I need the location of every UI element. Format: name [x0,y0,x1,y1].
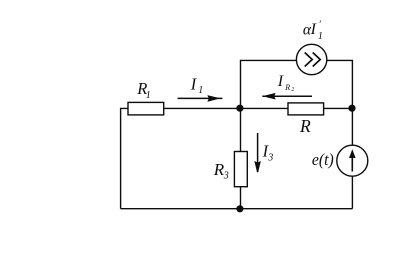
svg-text:R: R [284,83,290,92]
controlled current source U1 [296,44,326,74]
svg-text:R: R [299,116,311,136]
svg-text:I: I [277,73,284,90]
label R3 [213,160,229,181]
svg-text:I: I [310,21,317,38]
wire: R1 left lead, left side vertical [121,108,128,208]
svg-text:2: 2 [291,87,294,93]
current arrow IR2 [262,94,312,99]
wire: bottom horizontal [121,208,353,210]
resistor R1 [128,102,164,115]
svg-text:e(t): e(t) [312,150,334,169]
resistor R [288,103,324,115]
label I1 [190,74,204,96]
wire: R3 to bottom node C [240,187,242,209]
node A (main junction) [236,105,243,112]
current arrow I3 [255,133,260,172]
node B (right junction) [348,105,355,112]
wire: voltage source to bottom corner [351,176,353,209]
wire: R1 right lead to node A [164,107,241,109]
wire: node A to resistor R [241,107,289,109]
svg-text:1: 1 [198,85,203,96]
svg-text:′: ′ [319,20,322,31]
resistor R3 [234,152,247,187]
wire: current source to right branch top corner [327,60,353,108]
svg-text:1: 1 [318,31,323,42]
label R1 [136,79,151,101]
wire: resistor R to node B [324,107,353,109]
current arrow I1 [178,96,223,101]
svg-text:1: 1 [146,90,151,101]
label alpha I1 prime [303,20,323,42]
label I3 [262,142,274,164]
svg-text:3: 3 [223,171,229,182]
node C (bottom junction) [236,205,243,212]
svg-text:3: 3 [267,152,273,163]
label IR2 [277,73,295,93]
svg-text:I: I [190,74,198,93]
wire: node A down to R3 [240,108,242,151]
voltage source e(t) [337,145,368,176]
wire: node B down to voltage source [351,108,353,145]
wire: node A up and across to current source [241,60,297,108]
